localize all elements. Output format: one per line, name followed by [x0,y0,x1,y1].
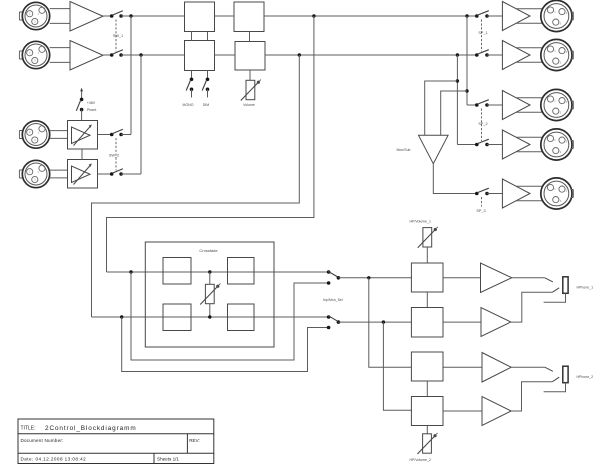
wire [121,54,184,56]
potentiometer Volume [241,80,261,101]
label SW_2 [109,154,119,158]
wire [487,193,502,195]
block HP level cell 3 [411,352,443,381]
wire [517,8,543,10]
svg-text:HP/Volume_1: HP/Volume_1 [410,220,431,224]
label 2Control_Blockdiagramm [45,425,137,432]
node speaker A L tap [465,14,468,17]
wire [103,54,112,56]
block C input stage R [185,41,215,71]
wire [215,54,236,56]
wire [545,278,553,282]
wire [264,15,477,17]
svg-text:SP_3: SP_3 [476,209,485,213]
svg-text:SW_1: SW_1 [113,34,123,38]
wire [215,15,235,17]
node HP tap L [367,276,370,279]
wire [517,22,543,24]
svg-text:HP/Volume_2: HP/Volume_2 [410,458,431,462]
switch output row y=55 [475,50,489,57]
label TITLE [21,426,36,432]
label HPhone_1 [577,286,594,290]
wire [457,144,476,146]
node L bus tap [312,14,315,17]
label SW_1 [113,34,123,38]
label Phantom [87,108,97,112]
power +48V arrow [80,88,83,99]
svg-text:Crossfade: Crossfade [199,248,218,253]
wire [92,55,300,317]
wire [487,15,502,17]
wire [338,321,411,323]
node mon/sub tap L [465,89,468,92]
label SP_1 [478,31,487,35]
wire [441,91,467,135]
XLR input connector J3 [19,121,49,148]
label MONO [183,103,194,107]
wire [338,277,411,279]
svg-text:SP_1: SP_1 [478,31,487,35]
XLR output connector [541,178,573,209]
wire [517,200,543,202]
wire [383,322,411,410]
label DIM [203,103,210,107]
switch SW_2b [110,169,123,176]
wire [121,173,141,175]
switch SW_1b [110,50,123,57]
op-amp output driver [502,2,530,31]
title block row divider 2 [18,452,214,454]
label SP_3 [476,209,485,213]
op-amp output driver [502,130,530,159]
wire [265,54,477,56]
wire [92,316,329,318]
wire [140,55,142,174]
wire [456,55,458,145]
op-amp mon/sub summing [419,135,449,163]
XLR input connector J1 [19,2,49,29]
wire [426,292,428,308]
wire [517,136,543,138]
wire [191,32,193,41]
wire [517,151,543,153]
svg-text:SP_2: SP_2 [478,122,487,126]
preamp U4 variable gain [68,160,98,189]
wire [103,15,112,17]
wire [466,16,468,105]
switch output row y=144.5 [475,139,489,146]
wire [517,185,543,187]
label SP_2 [478,122,487,126]
op-amp U1 input buffer L [70,2,103,32]
wire [249,70,251,80]
potentiometer HP/Volume_2 [417,433,437,454]
wire [191,71,193,80]
XLR output connector [541,0,573,31]
switch SW_1 gang link [115,20,117,52]
label Volume [243,103,255,107]
svg-text:2Control_Blockdiagramm: 2Control_Blockdiagramm [45,425,137,432]
svg-text:Mon/Sub: Mon/Sub [397,148,411,152]
wire [443,366,482,368]
wire [425,81,458,135]
node direct L tap [129,270,132,273]
block crossfade cell UR [228,258,255,285]
jack HPhone_1 [544,277,569,303]
wire [426,426,428,434]
block HP level cell 1 [411,263,443,292]
preamp U3 variable gain [68,121,98,150]
node direct R tap [120,315,123,318]
wire [122,317,329,372]
node crossfade pot tap bottom [208,315,211,318]
svg-text:TITLE:: TITLE: [21,426,36,432]
block HP level cell 4 [411,397,443,426]
wire [50,47,70,49]
label Sheets [157,457,179,462]
potentiometer HP/Volume_1 [418,227,438,248]
wire [552,288,559,293]
XLR input connector J2 [19,41,49,68]
block D mute/relay R [235,42,265,71]
wire [98,134,112,136]
switch SP_3 gang link [481,197,483,207]
wire [517,97,543,99]
wire [443,277,481,279]
wire [426,381,428,397]
node R bus tap [298,53,301,56]
switch output row y=16 [475,11,489,18]
wire [426,247,428,263]
block crossfade cell LR [228,304,255,331]
wire [121,15,184,17]
node mic2/phono2 junction [139,53,142,56]
switch output row y=193.5 [475,188,489,195]
wire [552,377,559,382]
svg-text:Phant.: Phant. [87,108,97,112]
svg-text:REV:: REV: [189,438,200,443]
wire [131,272,329,360]
XLR output connector [541,39,573,70]
svg-text:SW_2: SW_2 [109,154,119,158]
title block sheets divider [153,453,155,463]
op-amp HP1 R [481,308,511,337]
switch Inp/Mon_Sel top [327,270,340,285]
op-amp HP2 L [482,353,511,383]
wire [517,47,543,49]
op-amp U2 input buffer R [70,41,103,71]
wire [50,169,68,171]
wire [207,32,209,41]
potentiometer crossfade [200,284,220,305]
block HP level cell 2 [411,308,443,338]
wire [467,104,477,106]
op-amp output driver [502,91,530,120]
wire [369,278,412,367]
label REV [189,438,200,443]
wire [487,54,502,56]
svg-text:+48V: +48V [87,101,96,105]
switch Inp/Mon_Sel bottom [327,315,340,329]
wire [50,8,70,10]
title block row divider 1 [18,433,214,435]
label Mon/Sub [397,148,411,152]
jack HPhone_2 [544,366,569,392]
label HP/Volume_2 [410,458,431,462]
switch SW_2 gang link [115,138,117,171]
op-amp output driver [502,41,530,70]
wire [81,110,83,121]
svg-text:Document Number:: Document Number: [21,438,64,443]
wire [81,149,83,160]
label Date [21,457,87,462]
svg-text:MONO: MONO [183,103,194,107]
label Inp/Mon_Sel [323,298,343,302]
label Document Number [21,438,64,443]
label Crossfade [199,248,218,253]
wire [107,16,314,272]
block B mute/relay L [234,2,264,32]
wire [443,410,482,412]
wire [433,164,477,194]
label HPhone_2 [577,375,594,379]
XLR output connector [541,129,573,160]
switch MONO [186,78,193,92]
switch SP_2 gang link [481,109,483,142]
wire [50,130,68,132]
label HP/Volume_1 [410,220,431,224]
label +48V [87,101,96,105]
svg-text:Date: 04.12.2008 13:08:42: Date: 04.12.2008 13:08:42 [21,457,87,462]
wire [209,304,211,317]
wire [487,144,502,146]
svg-text:Sheets 1/1: Sheets 1/1 [157,457,179,462]
node HP tap R [382,320,385,323]
block crossfade cell UL [163,258,191,285]
title block REV divider [186,434,188,453]
wire [207,71,209,80]
block crossfade outline [145,242,274,347]
node speaker A R tap [456,53,459,56]
svg-text:DIM: DIM [203,103,210,107]
svg-text:Inp/Mon_Sel: Inp/Mon_Sel [323,298,343,302]
title block frame [18,419,214,464]
wire [517,61,543,63]
op-amp output driver [502,179,530,208]
wire [209,272,211,284]
wire [487,104,502,106]
wire [107,271,329,273]
svg-text:Volume: Volume [243,103,255,107]
switch DIM [202,78,209,92]
wire [511,366,545,368]
block A input stage L [185,2,215,32]
block crossfade cell LL [163,304,191,331]
switch SW_1a [110,11,123,18]
wire [545,367,553,371]
switch SP_1 gang link [481,20,483,52]
wire [207,89,209,97]
node crossfade pot tap top [208,270,211,273]
wire [191,89,193,97]
wire [512,277,545,279]
wire [130,16,132,135]
switch phantom [76,98,83,112]
op-amp HP2 R [482,397,511,426]
node mic1/phono1 junction [129,14,132,17]
svg-text:HPhone_2: HPhone_2 [577,375,594,379]
switch SW_2a [110,129,123,136]
node mon/sub tap R [456,79,459,82]
wire [517,111,543,113]
wire [511,382,552,411]
wire [249,32,251,42]
wire [98,173,112,175]
XLR input connector J4 [19,160,49,187]
XLR output connector [541,89,573,120]
svg-text:HPhone_1: HPhone_1 [577,286,594,290]
wire [443,321,481,323]
op-amp HP1 L [481,263,512,293]
switch output row y=105 [475,100,489,107]
wire [121,134,131,136]
wire [511,292,553,322]
